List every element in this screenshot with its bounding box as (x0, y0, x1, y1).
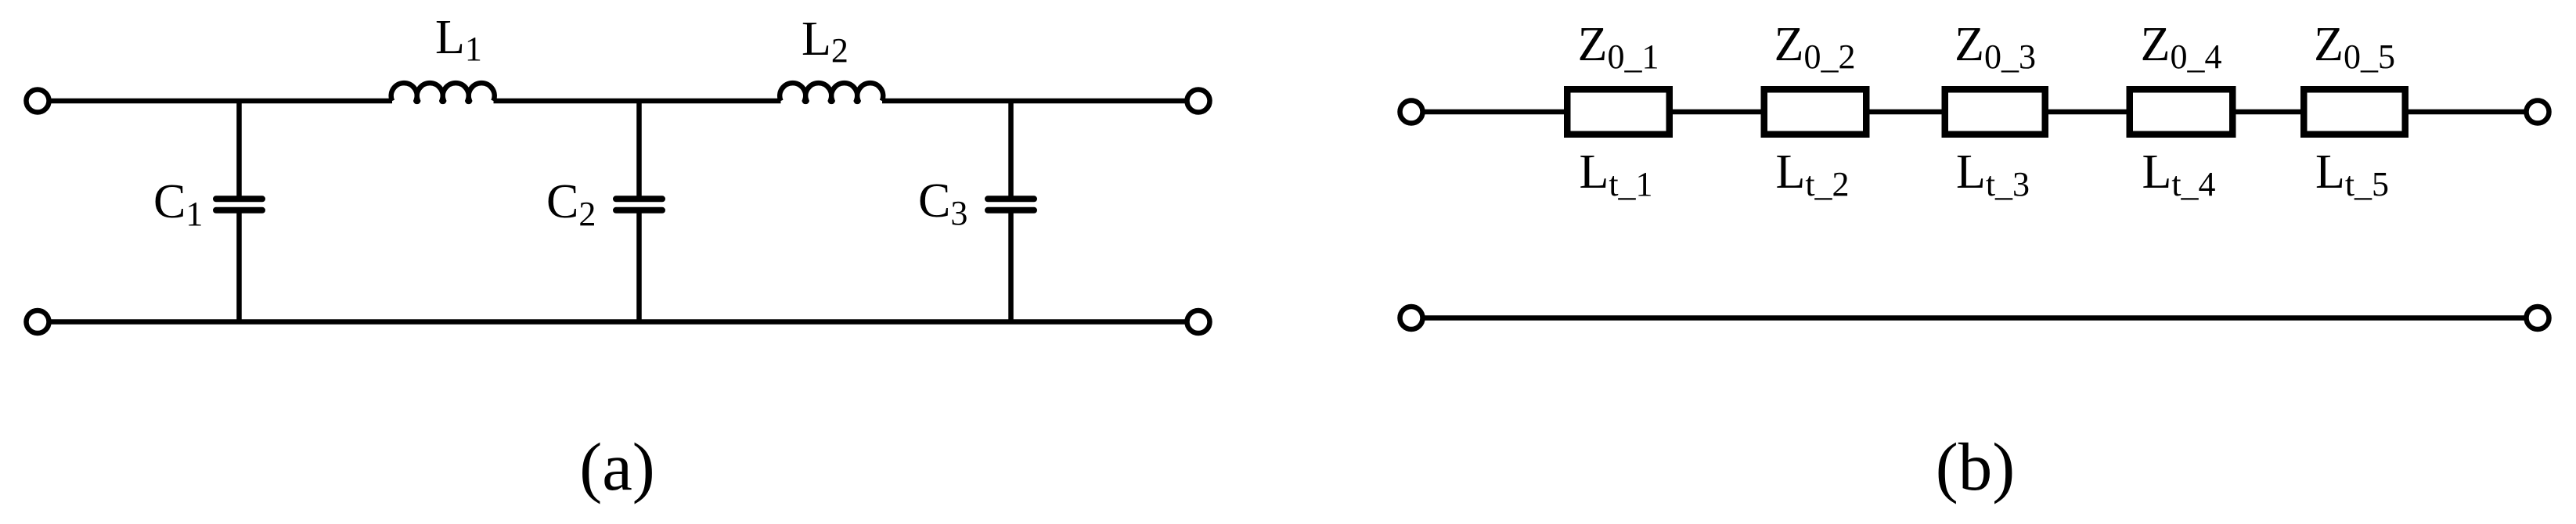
inductor L1 (391, 83, 495, 102)
wire (b) box2-box3 (1869, 109, 1942, 115)
svg-text:(b): (b) (1936, 429, 2015, 504)
wire C1 vertical top (236, 101, 242, 199)
wire top-middle segment (a) (494, 99, 781, 104)
wire C1 vertical bottom (236, 210, 242, 322)
terminal left-bottom (b) (1400, 307, 1423, 329)
terminal left-top (a) (27, 90, 49, 113)
wire (b) bottom (1425, 315, 2524, 321)
wire (b) box3-box4 (2048, 109, 2127, 115)
capacitor C1 plates (216, 199, 262, 210)
wire top-left segment (a) (52, 99, 393, 104)
terminal left-bottom (a) (27, 310, 49, 333)
transmission line box Z0_1 (1567, 89, 1670, 135)
wire (b) lead-in (1425, 109, 1565, 115)
transmission line box Z0_2 (1764, 89, 1867, 135)
inductor L2 (780, 83, 883, 102)
terminal right-bottom (b) (2527, 307, 2549, 329)
svg-text:(a): (a) (579, 429, 655, 504)
transmission line box Z0_5 (2304, 89, 2405, 135)
wire (b) box1-box2 (1673, 109, 1761, 115)
capacitor C2 plates (616, 199, 662, 210)
transmission line box Z0_3 (1945, 89, 2045, 135)
terminal right-bottom (a) (1187, 310, 1210, 333)
wire C3 vertical bottom (1008, 210, 1014, 322)
terminal right-top (a) (1187, 90, 1210, 113)
terminal left-top (b) (1400, 101, 1423, 124)
wire C3 vertical top (1008, 101, 1014, 199)
transmission line box Z0_4 (2130, 89, 2233, 135)
terminal right-top (b) (2527, 101, 2549, 124)
wire bottom (a) (52, 319, 1185, 325)
wire C2 vertical bottom (636, 210, 642, 322)
wire top-right segment (a) (882, 99, 1185, 104)
capacitor C3 plates (988, 199, 1034, 210)
wire C2 vertical top (636, 101, 642, 199)
wire (b) box4-box5 (2236, 109, 2301, 115)
wire (b) lead-out (2408, 109, 2524, 115)
